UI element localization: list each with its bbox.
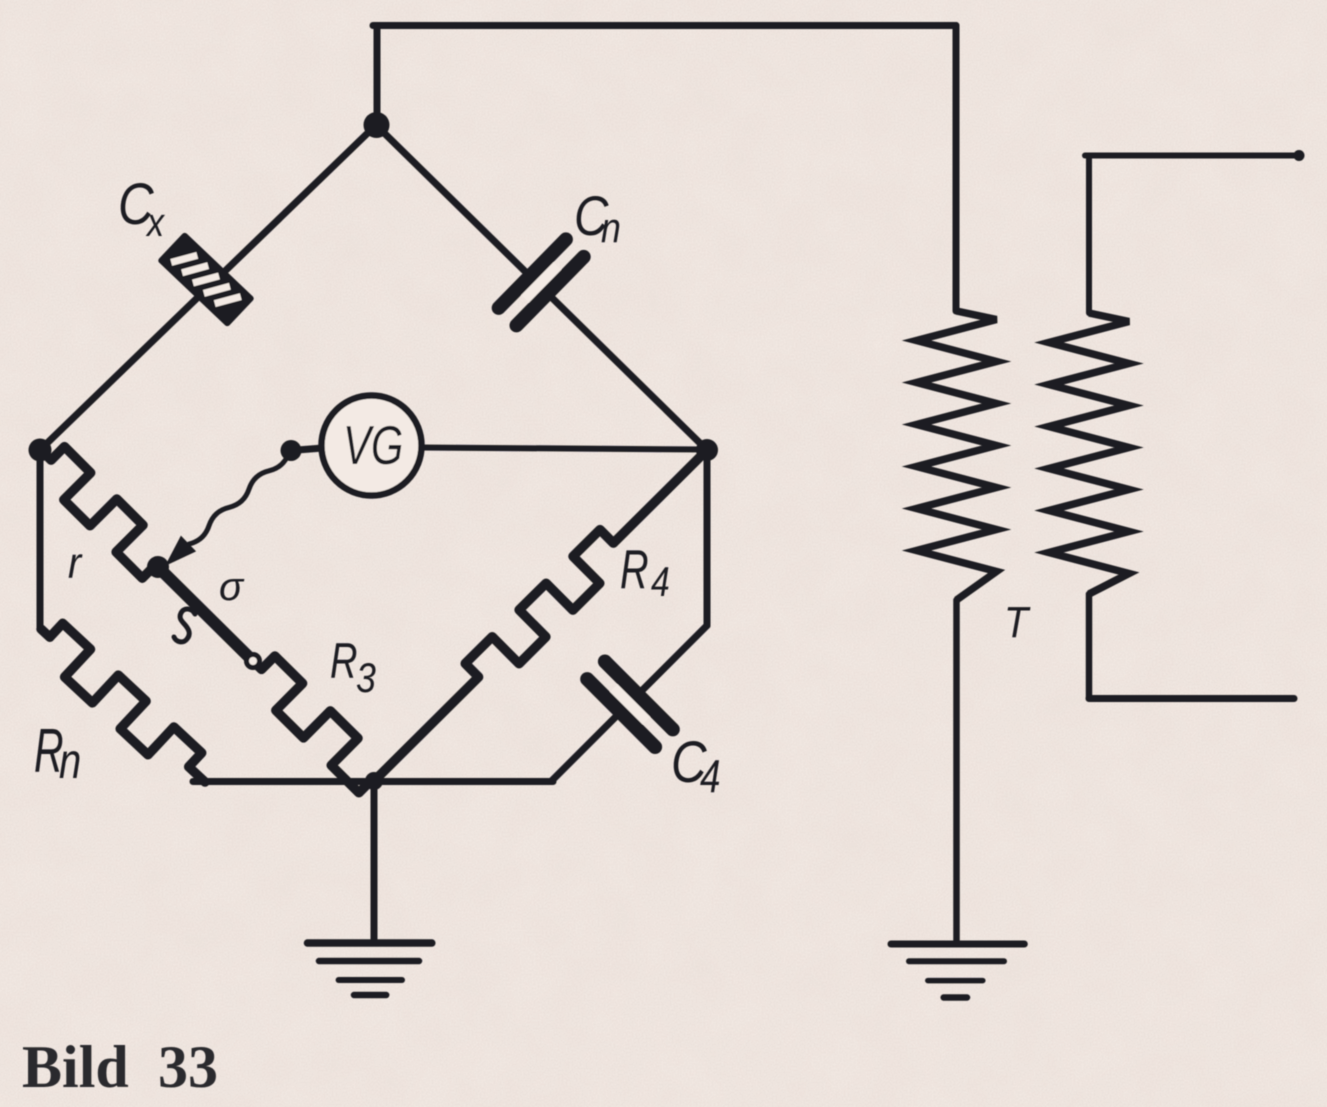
svg-text:R: R — [620, 540, 649, 601]
svg-text:n: n — [59, 733, 81, 789]
svg-text:33: 33 — [158, 1034, 218, 1100]
svg-text:R: R — [330, 634, 357, 689]
svg-text:4: 4 — [700, 750, 720, 802]
svg-text:r: r — [68, 538, 83, 587]
svg-text:T: T — [1004, 597, 1031, 646]
svg-text:x: x — [145, 199, 165, 244]
svg-text:4: 4 — [651, 560, 670, 606]
svg-text:3: 3 — [356, 655, 376, 701]
svg-text:Bild: Bild — [22, 1034, 129, 1100]
svg-text:n: n — [601, 205, 621, 251]
svg-text:VG: VG — [343, 416, 403, 477]
svg-text:σ: σ — [219, 565, 245, 609]
